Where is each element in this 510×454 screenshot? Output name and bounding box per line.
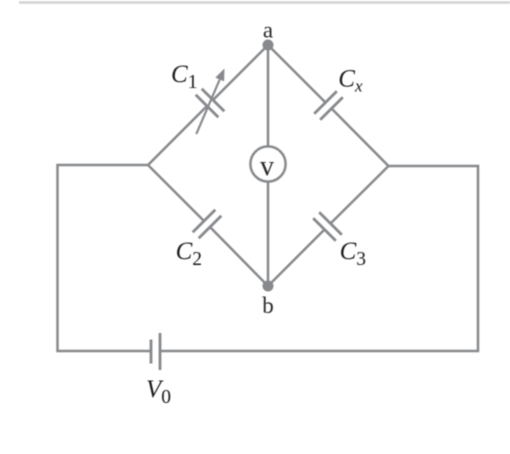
wire C1 to left corner bbox=[148, 106, 207, 165]
wire a to voltmeter bbox=[267, 45, 270, 146]
svg-text:a: a bbox=[263, 18, 273, 43]
capacitor C2 bbox=[193, 210, 222, 239]
wire left corner to C2 bbox=[148, 165, 204, 221]
voltmeter V bbox=[250, 146, 285, 181]
svg-text:v: v bbox=[260, 151, 274, 182]
node a bbox=[263, 40, 274, 51]
battery V0 bbox=[151, 333, 160, 370]
wire a to C1 bbox=[213, 45, 268, 100]
capacitor C3 bbox=[313, 212, 342, 241]
wire a to Cx bbox=[268, 45, 326, 103]
wire C3 to right corner bbox=[331, 166, 389, 224]
capacitor C1 (variable) bbox=[196, 69, 225, 135]
svg-text:b: b bbox=[262, 293, 274, 318]
wire node b to C3 bbox=[268, 230, 325, 287]
capacitor Cx bbox=[314, 91, 343, 120]
wire battery to right corner bbox=[160, 166, 478, 351]
wire left corner to battery bbox=[58, 165, 152, 351]
wire voltmeter to node b bbox=[267, 182, 270, 286]
wire Cx to right corner bbox=[332, 109, 389, 167]
wire C2 to node b bbox=[210, 227, 268, 286]
node b bbox=[263, 281, 274, 292]
